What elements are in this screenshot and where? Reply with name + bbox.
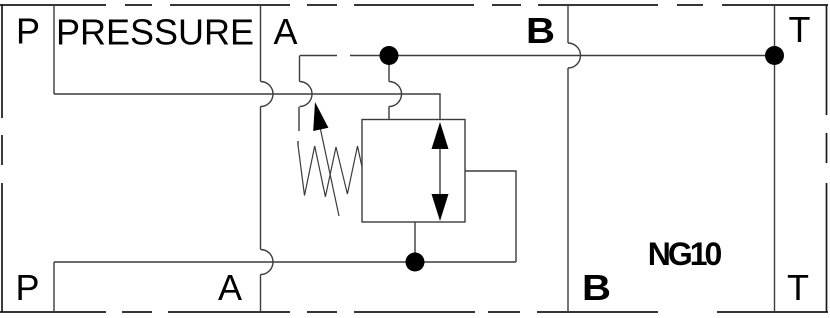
svg-text:NG10: NG10 (648, 236, 722, 272)
svg-text:T: T (787, 267, 809, 308)
svg-text:PRESSURE: PRESSURE (56, 12, 254, 53)
svg-text:B: B (526, 10, 555, 51)
svg-text:A: A (218, 267, 242, 308)
svg-text:P: P (16, 11, 40, 52)
svg-text:B: B (582, 267, 611, 308)
svg-text:A: A (273, 11, 297, 52)
svg-text:T: T (789, 9, 811, 50)
svg-text:P: P (15, 267, 39, 308)
